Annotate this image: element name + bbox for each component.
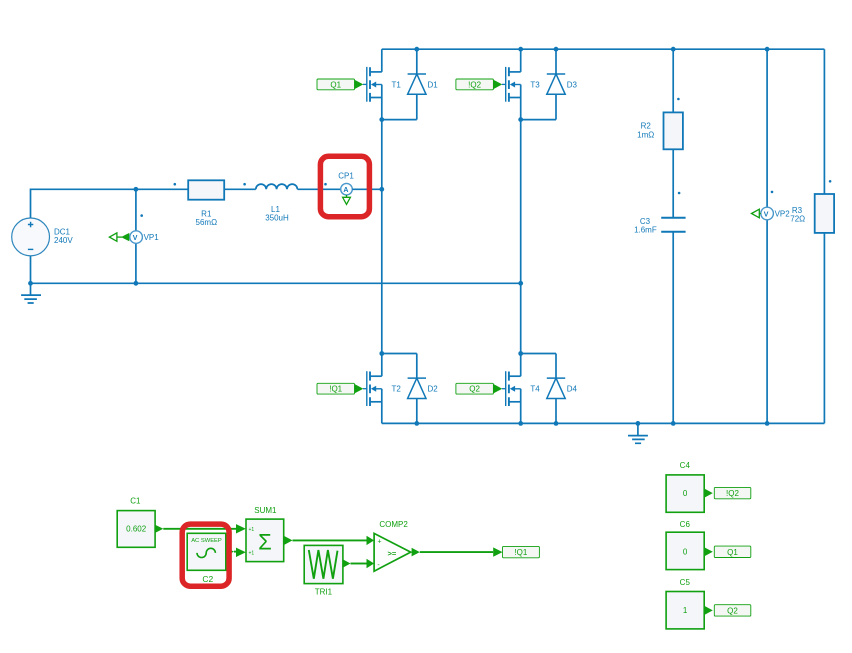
ammeter CP1 xyxy=(338,171,354,195)
wire top rail xyxy=(382,48,825,50)
resistor R3 72Ohm xyxy=(790,49,834,423)
svg-text:1: 1 xyxy=(683,606,688,615)
wire DC1 bottom lead xyxy=(30,256,32,283)
wire SUM1 to COMP2 xyxy=(293,539,367,541)
svg-text:0: 0 xyxy=(683,548,688,557)
constant block C1 (0.602) xyxy=(117,497,163,548)
svg-text:C2: C2 xyxy=(202,574,213,584)
junction mid rail to leg2 xyxy=(518,281,523,286)
svg-text:Q1: Q1 xyxy=(727,548,738,557)
DC source DC1 240V xyxy=(12,218,74,256)
svg-text:D4: D4 xyxy=(567,385,578,394)
svg-text:56mΩ: 56mΩ xyxy=(196,218,218,227)
svg-text:!Q2: !Q2 xyxy=(726,489,739,498)
svg-text:D1: D1 xyxy=(428,80,439,89)
red highlight CP1 xyxy=(320,156,369,216)
wire T2 drain to D2 xyxy=(382,353,417,355)
wire DC1 top lead xyxy=(31,189,189,218)
diode D1 xyxy=(408,49,439,119)
svg-text:C1: C1 xyxy=(130,497,141,506)
capacitor C3 1.6mF xyxy=(634,217,686,424)
svg-text:350uH: 350uH xyxy=(265,214,289,223)
svg-text:R1: R1 xyxy=(201,209,212,218)
wire R1 to L1 xyxy=(224,188,256,190)
svg-text:C4: C4 xyxy=(680,461,691,470)
wire leg1 vertical (T1-T2) xyxy=(381,120,383,354)
resistor R1 56mOhm xyxy=(188,180,224,227)
voltmeter VP1 xyxy=(130,189,159,283)
svg-text:T3: T3 xyxy=(530,80,540,89)
svg-text:D2: D2 xyxy=(428,385,439,394)
wire bottom rail xyxy=(382,422,825,424)
junction VP2 top xyxy=(765,47,770,52)
svg-text:T2: T2 xyxy=(392,385,402,394)
svg-text:+: + xyxy=(378,539,382,546)
svg-text:L1: L1 xyxy=(271,205,280,214)
svg-text:>=: >= xyxy=(388,549,397,558)
junction T3 top xyxy=(518,47,523,52)
svg-text:V: V xyxy=(764,212,769,219)
svg-text:V: V xyxy=(133,235,138,242)
wire C1 to SUM1 xyxy=(163,528,236,530)
wire bottom dc rail xyxy=(31,282,521,284)
junction ground bottom xyxy=(636,421,641,426)
junction VP2 bottom xyxy=(765,421,770,426)
triangle source TRI1 xyxy=(304,545,350,596)
mosfet T4 xyxy=(506,354,541,424)
junction VP1 bottom xyxy=(134,281,139,286)
junction D2 bottom xyxy=(414,421,419,426)
junction R2 top xyxy=(671,47,676,52)
wire T1 source to D1 xyxy=(382,119,417,121)
svg-text:VP2: VP2 xyxy=(775,209,791,218)
signal label Q2 xyxy=(714,605,751,616)
junction D1 top xyxy=(414,47,419,52)
svg-text:SUM1: SUM1 xyxy=(254,506,277,515)
svg-text:Σ: Σ xyxy=(258,529,272,554)
node dot above R2 xyxy=(677,98,680,101)
gate label Q2 xyxy=(456,383,506,394)
comparator COMP2 xyxy=(367,520,420,571)
junction CP1 node xyxy=(379,187,384,192)
gate label Q1 xyxy=(317,79,367,90)
ground (under DC1) xyxy=(21,283,41,303)
inductor L1 350uH xyxy=(256,184,298,223)
node dot above R3 xyxy=(829,180,832,183)
svg-text:+1: +1 xyxy=(249,551,255,557)
svg-text:!Q2: !Q2 xyxy=(468,80,481,89)
junction T4 drain xyxy=(518,351,523,356)
constant block C4 (0) xyxy=(666,461,713,512)
junction DC1 bottom xyxy=(28,281,33,286)
red highlight C2 xyxy=(182,524,229,586)
junction C3 bottom xyxy=(671,421,676,426)
svg-text:0: 0 xyxy=(683,489,688,498)
mosfet T2 xyxy=(367,354,402,424)
wire COMP2 to !Q1 xyxy=(420,551,493,553)
svg-text:Q1: Q1 xyxy=(330,80,341,89)
probe marker CP1 (green) xyxy=(343,195,351,204)
svg-text:R3: R3 xyxy=(792,206,803,215)
svg-text:240V: 240V xyxy=(54,236,73,245)
svg-text:72Ω: 72Ω xyxy=(790,215,805,224)
svg-text:Q2: Q2 xyxy=(469,385,480,394)
ac sweep source C2 xyxy=(187,533,234,584)
svg-text:1mΩ: 1mΩ xyxy=(637,130,654,139)
svg-text:C6: C6 xyxy=(680,520,691,529)
svg-text:COMP2: COMP2 xyxy=(379,520,408,529)
gate label !Q2 xyxy=(456,79,506,90)
svg-text:D3: D3 xyxy=(567,80,578,89)
constant block C6 (0) xyxy=(666,520,713,569)
probe arrow VP2 (green) xyxy=(752,209,761,218)
svg-text:0.602: 0.602 xyxy=(126,524,147,533)
diode D4 xyxy=(547,354,578,424)
svg-text:Q2: Q2 xyxy=(727,607,738,616)
svg-text:AC SWEEP: AC SWEEP xyxy=(191,538,222,544)
junction T4 source xyxy=(518,421,523,426)
signal label !Q1 xyxy=(493,546,539,557)
wire L1 to CP1 xyxy=(297,188,340,190)
wire leg2 vertical (T3-T4) xyxy=(520,120,522,354)
svg-text:A: A xyxy=(343,187,348,194)
node dot above VP1 xyxy=(140,214,143,217)
svg-text:1.6mF: 1.6mF xyxy=(634,226,657,235)
node dot left of R1 xyxy=(174,183,177,186)
diode D2 xyxy=(408,354,439,424)
signal label !Q2 xyxy=(714,487,751,498)
svg-text:R2: R2 xyxy=(641,122,652,131)
gate label !Q1 xyxy=(317,383,367,394)
svg-text:CP1: CP1 xyxy=(338,171,354,180)
svg-text:T4: T4 xyxy=(530,385,540,394)
probe arrow VP1 (green) xyxy=(109,233,129,241)
junction T1 source xyxy=(379,117,384,122)
wire CP1 to bridge xyxy=(352,188,382,190)
junction D4 bottom xyxy=(554,421,559,426)
voltmeter VP2 xyxy=(761,49,790,423)
svg-text:+1: +1 xyxy=(249,527,255,533)
mosfet T1 xyxy=(367,49,402,119)
svg-text:TRI1: TRI1 xyxy=(315,588,333,597)
svg-text:C5: C5 xyxy=(680,578,691,587)
junction D3 top xyxy=(554,47,559,52)
svg-text:!Q1: !Q1 xyxy=(514,548,527,557)
resistor R2 1mOhm xyxy=(637,49,683,218)
wire T3 source to D3 xyxy=(521,119,556,121)
node dot above VP2 xyxy=(771,191,774,194)
mosfet T3 xyxy=(506,49,541,119)
wire T4 drain to D4 xyxy=(521,353,556,355)
diode D3 xyxy=(547,49,578,119)
summation block SUM1 xyxy=(236,506,293,562)
junction T3 source xyxy=(518,117,523,122)
node dot left of CP1 xyxy=(324,183,327,186)
junction T2 drain xyxy=(379,351,384,356)
signal label Q1 xyxy=(714,546,751,557)
svg-text:C3: C3 xyxy=(640,217,651,226)
junction VP1 top xyxy=(134,187,139,192)
svg-text:VP1: VP1 xyxy=(144,233,160,242)
ground (bottom) xyxy=(628,423,648,443)
wire TRI1 to COMP2 xyxy=(351,563,367,565)
node dot above C3 xyxy=(678,192,681,195)
svg-text:T1: T1 xyxy=(392,80,402,89)
svg-text:!Q1: !Q1 xyxy=(329,385,342,394)
node dot right of R1 xyxy=(243,183,246,186)
constant block C5 (1) xyxy=(666,578,713,629)
wire C2 to SUM1 xyxy=(234,551,236,553)
